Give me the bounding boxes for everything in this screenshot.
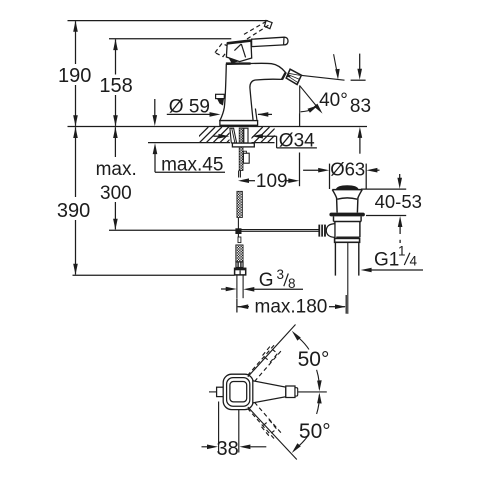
faucet: dashed lever tip cap [264, 20, 272, 28]
dashed rotated arm lower [248, 402, 282, 441]
faucet base plate [220, 121, 258, 126]
pull rod clevis [237, 218, 239, 243]
svg-text:8: 8 [288, 276, 296, 291]
waste cap [336, 186, 358, 190]
dimension max.180 [237, 295, 346, 314]
waste body [334, 216, 362, 237]
shank: horseshoe nut [232, 143, 254, 147]
dimension 158 [115, 39, 117, 126]
hose nut [235, 268, 246, 275]
svg-text:Ø63: Ø63 [330, 159, 365, 180]
faucet bell right edge [255, 109, 257, 121]
label G 3/8 [221, 288, 303, 290]
dimension 190 [75, 21, 77, 126]
faucet aerator [286, 69, 301, 84]
waste tailpipe [334, 242, 336, 275]
waste side port nut [318, 225, 326, 237]
svg-text:3: 3 [277, 267, 285, 282]
svg-text:38: 38 [217, 438, 239, 460]
shank: cone wedge below counter [230, 128, 237, 143]
counter hatching [193, 127, 283, 142]
G3/8 pipe [236, 275, 238, 298]
pull rod middle segment [238, 171, 240, 178]
shank: rod guide bracket [243, 153, 249, 163]
dimension diameter 59 [167, 113, 272, 115]
label G 1 1/4 [371, 269, 424, 271]
svg-text:G: G [259, 270, 274, 291]
svg-text:109: 109 [256, 171, 288, 192]
svg-text:390: 390 [57, 200, 90, 222]
dimension 40-53 [361, 174, 406, 243]
shank: threaded rod upper [239, 128, 243, 171]
svg-text:50°: 50° [298, 348, 330, 371]
svg-text:max.180: max.180 [255, 296, 328, 317]
svg-text:max.: max. [96, 159, 137, 180]
faucet: dashed open-position handle [215, 22, 268, 57]
faucet body [220, 63, 286, 120]
svg-text:40-53: 40-53 [375, 191, 422, 212]
svg-text:50°: 50° [299, 420, 331, 443]
pull rod lower segment [237, 191, 243, 217]
svg-text:4: 4 [410, 254, 418, 269]
dimension max.45 [155, 99, 225, 172]
centerline [209, 391, 217, 393]
shank: tube right [244, 128, 248, 143]
dimension 83 [351, 54, 366, 154]
handle arm [253, 381, 286, 403]
handle rear tab [217, 387, 225, 396]
svg-text:158: 158 [99, 75, 132, 97]
svg-text:190: 190 [58, 65, 91, 87]
wire: 158 extension line (lever top) [109, 38, 231, 40]
svg-text:83: 83 [350, 96, 371, 117]
svg-text:max.45: max.45 [161, 154, 223, 175]
dimension diameter 63 [303, 164, 379, 189]
horizontal waste rod [242, 229, 320, 231]
faucet lever (closed position) [252, 37, 288, 46]
svg-text:40°: 40° [319, 90, 348, 111]
svg-text:G1: G1 [374, 250, 399, 271]
dimension 38 [202, 402, 267, 453]
svg-text:1: 1 [398, 243, 406, 258]
angle 40 deg annotation [300, 54, 345, 113]
handle head [223, 374, 253, 409]
dashed rotated arm upper [248, 343, 282, 382]
waste flare [332, 190, 362, 213]
wire: countertop bottom line [148, 142, 230, 144]
wire: top extension line (max height, lever raised) [68, 20, 268, 22]
50 deg lower arc [317, 395, 320, 414]
waste port connector [326, 224, 335, 238]
wire: mounting surface top line [68, 126, 368, 128]
50 deg rays [248, 325, 296, 377]
waste seal ring [329, 213, 365, 217]
svg-text:Ø34: Ø34 [279, 131, 315, 152]
faucet body/housing joint [226, 62, 251, 64]
50 deg upper arc [300, 339, 310, 350]
dimension diameter 34 flag [214, 136, 317, 148]
svg-text:Ø 59: Ø 59 [169, 96, 210, 117]
dimension 390 [73, 127, 235, 275]
faucet pop-up rod knob [216, 94, 225, 98]
faucet spout end face [282, 72, 286, 79]
dimension max.300 [109, 127, 237, 230]
hose collar ribbed [236, 262, 243, 268]
waste bottom disc [335, 238, 360, 242]
supply hose braided [236, 245, 243, 262]
dimension 109 [249, 114, 300, 187]
faucet handle housing [226, 40, 251, 61]
svg-text:300: 300 [100, 183, 132, 204]
